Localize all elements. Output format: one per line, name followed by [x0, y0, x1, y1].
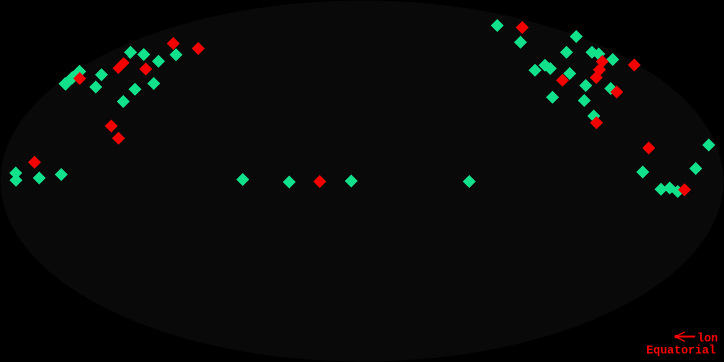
marker G24 (green diamond)	[560, 46, 573, 59]
marker G2 (green diamond)	[65, 71, 79, 85]
marker G32 (green diamond)	[579, 79, 592, 92]
marker G16 (green diamond)	[55, 168, 68, 181]
marker R12 (red diamond)	[590, 71, 603, 84]
marker G28 (green diamond)	[528, 64, 541, 77]
marker R9 (red diamond)	[516, 21, 529, 34]
marker G31 (green diamond)	[563, 67, 576, 80]
marker R8 (red diamond)	[313, 175, 326, 188]
marker R15 (red diamond)	[610, 86, 623, 99]
marker R6 (red diamond)	[105, 119, 118, 132]
marker G30 (green diamond)	[544, 62, 557, 75]
marker G8 (green diamond)	[169, 48, 182, 61]
lon direction arrow	[675, 335, 696, 339]
marker R17 (red diamond)	[642, 142, 655, 155]
marker G3 (green diamond)	[73, 65, 87, 79]
marker G13 (green diamond)	[9, 166, 22, 179]
marker G6 (green diamond)	[124, 46, 137, 59]
marker G36 (green diamond)	[587, 110, 600, 123]
marker G37 (green diamond)	[702, 139, 715, 152]
marker G33 (green diamond)	[604, 82, 617, 95]
marker R16 (red diamond)	[590, 116, 603, 129]
marker G15 (green diamond)	[33, 171, 46, 184]
marker G20 (green diamond)	[463, 175, 476, 188]
marker G17 (green diamond)	[236, 173, 249, 186]
marker G19 (green diamond)	[345, 175, 358, 188]
marker G10 (green diamond)	[147, 77, 160, 90]
marker G5 (green diamond)	[89, 81, 102, 94]
marker G22 (green diamond)	[514, 36, 527, 49]
marker R4 (red diamond)	[139, 63, 152, 76]
marker R1 (red diamond)	[73, 72, 86, 85]
marker R10 (red diamond)	[596, 55, 609, 68]
marker R2 (red diamond)	[167, 37, 180, 50]
marker G42 (green diamond)	[671, 185, 684, 198]
marker G41 (green diamond)	[663, 182, 676, 195]
marker G9 (green diamond)	[152, 55, 165, 68]
marker R19 (large tilted red diamond)	[112, 57, 129, 74]
svg-text:Equatorial: Equatorial	[646, 344, 716, 358]
marker G35 (green diamond)	[546, 91, 559, 104]
marker G26 (green diamond)	[592, 47, 605, 60]
marker R3 (red diamond)	[192, 42, 205, 55]
marker G12 (green diamond)	[117, 95, 130, 108]
marker G27 (green diamond)	[606, 53, 619, 66]
marker G29 (green diamond)	[538, 59, 551, 72]
marker R13 (red diamond)	[628, 58, 641, 71]
marker G23 (green diamond)	[570, 30, 583, 43]
marker G40 (green diamond)	[655, 183, 668, 196]
marker G39 (green diamond)	[689, 162, 702, 175]
marker R18 (red diamond)	[678, 183, 691, 196]
marker G14 (green diamond)	[10, 174, 23, 187]
marker G4 (green diamond)	[95, 68, 108, 81]
marker G25 (green diamond)	[586, 46, 599, 59]
marker R14 (red diamond)	[556, 74, 569, 87]
marker R5 (red diamond)	[28, 156, 41, 169]
marker G34 (green diamond)	[578, 94, 591, 107]
marker R7 (red diamond)	[112, 132, 125, 145]
marker G38 (green diamond)	[636, 166, 649, 179]
marker G7 (green diamond)	[137, 48, 150, 61]
marker G21 (green diamond)	[491, 19, 504, 32]
marker G18 (green diamond)	[283, 176, 296, 189]
marker G11 (green diamond)	[128, 83, 141, 96]
marker R11 (red diamond)	[593, 63, 606, 76]
marker G1 (green diamond)	[58, 77, 72, 91]
